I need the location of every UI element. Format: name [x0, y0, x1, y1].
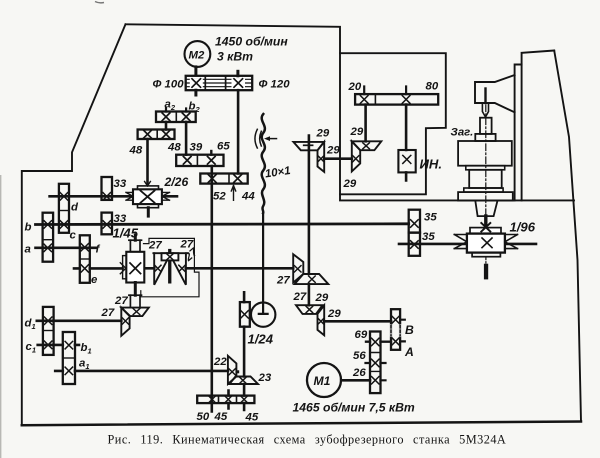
bevel 29 chain vertical shaft	[308, 136, 311, 306]
svg-text:29: 29	[350, 126, 364, 138]
shaft d1 horizontal	[37, 319, 122, 322]
worm 1/45 bottom prongs	[130, 295, 140, 307]
hob cutter	[482, 103, 488, 117]
hob slide arm	[475, 75, 515, 112]
x-mark 20	[360, 96, 368, 104]
x-mark d	[60, 193, 67, 201]
x-mark 1/45	[130, 263, 141, 274]
x-mark c	[60, 221, 67, 229]
shaft 1/24 vertical	[243, 292, 246, 410]
svg-text:27: 27	[276, 275, 290, 287]
hob spindle	[484, 89, 486, 104]
svg-text:29: 29	[316, 128, 330, 140]
svg-text:c: c	[70, 230, 77, 242]
svg-text:b: b	[25, 222, 32, 234]
bevel flag 27 horizontal	[121, 308, 149, 317]
svg-text:33: 33	[114, 213, 127, 225]
worm box 1/96 bottom flange	[472, 253, 500, 257]
x-mark 80	[402, 96, 410, 104]
gear pair 48 48	[138, 130, 175, 140]
shaft to gear B	[324, 320, 391, 323]
worm box 1/96 top plate	[470, 228, 501, 234]
svg-text:c1: c1	[26, 341, 37, 355]
svg-text:М2: М2	[189, 50, 205, 62]
svg-text:29: 29	[326, 145, 340, 157]
gear column 33/33 upper	[102, 177, 113, 200]
x-mark wheel	[167, 254, 173, 260]
svg-text:d: d	[71, 202, 79, 214]
pulley 120 upper stub	[236, 71, 239, 76]
svg-text:45: 45	[214, 411, 228, 423]
svg-text:a1: a1	[79, 358, 90, 372]
coupling right of 1/96	[505, 235, 518, 249]
shaft between 29 bevels	[324, 157, 352, 160]
x-mark right cone	[179, 265, 185, 271]
svg-text:e: e	[91, 274, 98, 286]
x-mark A	[392, 338, 400, 346]
svg-text:27: 27	[114, 295, 128, 307]
x-mark 45 right	[241, 396, 248, 403]
coupling left of 1/96	[454, 235, 467, 249]
x-mark ИН	[403, 155, 411, 163]
transfer wheel	[162, 253, 179, 260]
x-mark 33 upper	[103, 193, 111, 201]
svg-text:10×1: 10×1	[264, 165, 291, 180]
worm 2/26 top flange	[138, 186, 159, 189]
svg-text:26: 26	[352, 367, 366, 379]
coupling on e shaft	[120, 263, 126, 274]
svg-text:1/24: 1/24	[248, 332, 274, 347]
x-mark 2/26	[141, 191, 155, 203]
X mark table drive	[481, 223, 490, 232]
worm box 1/45	[126, 252, 144, 283]
x-mark pulley 120	[234, 79, 243, 87]
shaft e to feed box	[74, 267, 123, 270]
svg-text:1/45: 1/45	[113, 226, 139, 241]
table centerline dash-dot	[485, 92, 487, 216]
table drive thick center	[484, 216, 487, 227]
fixture wide box	[458, 141, 512, 166]
tick in top flag	[304, 144, 313, 146]
bevel flag 29 top vertical	[318, 142, 325, 172]
svg-text:27: 27	[148, 240, 162, 252]
x-mark c1	[44, 341, 52, 349]
svg-text:a2: a2	[165, 99, 176, 113]
x-mark a	[44, 244, 52, 252]
gear column 33/33 lower	[102, 213, 113, 235]
gear column f e	[80, 235, 90, 282]
worm box 1/96	[467, 234, 505, 253]
bevel flag 29 right vertical	[352, 141, 360, 171]
worm 1/45 bottom stub	[134, 283, 137, 296]
x-mark 29 lv	[318, 318, 324, 324]
bevel flag 29 mid horizontal	[295, 274, 329, 284]
x-mark b	[44, 221, 52, 229]
index box ИН	[398, 150, 415, 172]
stubs mid 45	[227, 391, 230, 409]
svg-text:29: 29	[343, 178, 357, 190]
gear pair 52 44	[200, 174, 247, 184]
motor M2 stem	[194, 67, 197, 76]
svg-text:В: В	[405, 323, 414, 337]
left cone	[154, 253, 167, 285]
shaft pulley120 down to gear44	[237, 90, 240, 173]
belt drive bar	[186, 76, 253, 90]
x-mark 35 lower	[411, 241, 419, 249]
column front plate	[515, 65, 522, 201]
x-mark 29 rv	[353, 156, 359, 162]
gear column 35/35	[409, 210, 420, 233]
svg-text:33: 33	[114, 178, 127, 190]
bevel flag 22 vertical	[228, 356, 237, 384]
table trapezoid	[475, 201, 497, 217]
screw line into circle	[259, 213, 268, 314]
x-mark a1	[65, 367, 73, 375]
svg-text:22: 22	[213, 356, 227, 368]
svg-text:1450 об/мин: 1450 об/мин	[215, 35, 288, 49]
gear pair a2 b2	[156, 112, 196, 123]
main vertical shaft 65-52-50	[211, 166, 214, 412]
svg-text:56: 56	[353, 350, 366, 362]
bevel flag 29 top horizontal	[293, 142, 324, 150]
fixture base	[458, 192, 513, 201]
x-mark 29 rh	[363, 143, 370, 149]
worm box 1/45 upper stub	[134, 235, 137, 240]
gear column b1 a1	[63, 332, 75, 384]
svg-text:29: 29	[327, 308, 341, 320]
svg-text:45: 45	[245, 412, 259, 424]
worm 2/26 bottom flange	[138, 204, 159, 208]
svg-text:3 кВт: 3 кВт	[217, 50, 253, 64]
fixture flange	[464, 188, 503, 192]
vertical feed screw 10x1 wavy	[262, 114, 265, 213]
bevel flag 29 low vertical	[318, 305, 325, 335]
x-mark 1/96	[482, 238, 492, 248]
bevel flag 23 horizontal	[230, 377, 259, 385]
svg-text:80: 80	[426, 81, 439, 93]
shaft 48 down to worm 2/26	[146, 139, 149, 184]
table screw thick bar	[484, 264, 488, 280]
table screw lower dash	[485, 257, 487, 263]
clamp arrow	[267, 138, 277, 140]
x-mark 50	[209, 396, 216, 403]
fixture step under workpiece	[475, 134, 495, 141]
x-mark bevel 27v	[122, 318, 128, 324]
svg-text:29: 29	[315, 292, 329, 304]
svg-text:69: 69	[355, 329, 368, 341]
gear bar 50 45 45	[197, 396, 254, 404]
x-mark d1	[44, 317, 52, 325]
stubs above a2 b2	[166, 108, 186, 112]
gear column d1 c1	[43, 307, 54, 355]
worm 2/26 bottom stub	[147, 208, 150, 216]
svg-text:50: 50	[197, 411, 210, 423]
shaft M1 to 26	[341, 379, 370, 382]
bevel flag 29 low horizontal	[296, 305, 323, 314]
bearing plate left of 1/45	[123, 256, 127, 279]
svg-text:Рис. 119. Кинематическая сх: Рис. 119. Кинематическая схема зубофрезе…	[108, 433, 507, 447]
top scan artifact	[95, 2, 104, 3]
svg-text:20: 20	[348, 81, 362, 93]
gear column b a	[43, 213, 54, 262]
shaft 20 up	[364, 105, 367, 142]
svg-text:b1: b1	[81, 342, 92, 356]
bevel flag 27 mid vertical	[293, 254, 303, 282]
shaft a1 long to bevel 22	[55, 370, 228, 373]
x-mark f	[81, 244, 89, 252]
pulley dividers	[205, 76, 225, 90]
shaft c1 b1	[38, 344, 79, 347]
motor M2 circle	[185, 41, 211, 67]
svg-text:1/96: 1/96	[510, 220, 536, 235]
x-mark 27 mid	[294, 266, 301, 272]
gear bar 20 80	[355, 94, 438, 105]
svg-text:48: 48	[167, 142, 181, 154]
svg-text:23: 23	[258, 372, 272, 384]
x-mark 33 lower	[103, 221, 111, 229]
svg-text:48: 48	[129, 145, 143, 157]
motor M1 circle	[307, 363, 341, 397]
nub right of 22	[236, 370, 239, 373]
svg-text:27: 27	[293, 291, 307, 303]
pulley 100 lower stub	[194, 90, 197, 95]
x-mark pulley 100	[192, 79, 201, 87]
worm 1/45 top prongs	[130, 240, 140, 252]
shaft 69 to A	[366, 341, 391, 343]
right cone	[173, 253, 186, 285]
shaft 80 down to index box	[405, 105, 408, 181]
svg-text:d1: d1	[25, 318, 36, 332]
gear column 69 56 26	[370, 332, 381, 394]
svg-text:Заг.: Заг.	[451, 127, 474, 139]
svg-text:Ф 100: Ф 100	[153, 79, 185, 91]
x-mark 26	[372, 377, 380, 385]
x-mark 69	[372, 338, 380, 346]
bevel flag 29 right horizontal	[352, 141, 382, 150]
gear block B A	[391, 309, 400, 350]
stubs 56 26	[366, 363, 386, 380]
worm 1/45 top cap	[129, 239, 142, 241]
arrowhead into 2/26	[145, 182, 151, 187]
coupling left 2/26	[126, 192, 133, 200]
gear pair 39 65	[176, 155, 223, 166]
svg-text:1465 об/мин 7,5 кВт: 1465 об/мин 7,5 кВт	[293, 401, 415, 415]
gear 1/24	[240, 302, 250, 327]
x-mark e	[81, 265, 89, 273]
svg-text:35: 35	[424, 212, 437, 224]
workpiece Заг.	[480, 118, 492, 134]
fixture cylinder	[469, 170, 502, 188]
bevel flag 27 vertical	[121, 308, 129, 336]
wheel spindle thick	[168, 260, 171, 283]
x-mark 35 upper	[411, 220, 419, 228]
svg-text:М1: М1	[314, 374, 331, 388]
stubs above bar 20 80	[364, 87, 406, 95]
shaft d to 33 to worm 2/26	[50, 195, 177, 198]
svg-text:44: 44	[241, 191, 255, 203]
arrow between 52 44	[231, 186, 235, 201]
x-mark 29 lh	[306, 306, 313, 312]
coupling right 2/26	[162, 192, 170, 200]
x-mark b1	[65, 341, 73, 349]
gear column d c	[59, 184, 69, 233]
feed shaft horizontal main	[144, 267, 293, 270]
svg-text:39: 39	[190, 142, 203, 154]
fixture step2	[466, 166, 505, 170]
left scan edge artifact	[0, 175, 2, 458]
long shaft b-33-35	[36, 222, 409, 225]
inner differential box outline	[340, 53, 446, 194]
svg-text:52: 52	[213, 191, 226, 203]
x-mark 1/24	[241, 311, 249, 319]
x-mark 56	[372, 359, 380, 367]
worm 1/45 bottom cap	[129, 294, 142, 296]
x-mark bevel 27h	[133, 309, 140, 315]
shaft a2 down	[165, 122, 168, 130]
svg-text:Ф 120: Ф 120	[259, 79, 291, 91]
worm box 2/26	[133, 189, 162, 204]
bottom outline rule	[22, 422, 581, 426]
x-mark left cone	[155, 265, 161, 271]
stub above 65	[210, 151, 212, 155]
feed housing thin frame	[141, 238, 199, 296]
x-mark 23	[240, 377, 247, 383]
shaft b2 down	[185, 122, 188, 155]
shaft a f	[36, 247, 97, 250]
x-mark 29 tv	[318, 156, 324, 162]
cone drive top edge	[153, 252, 187, 254]
column top edge	[522, 51, 555, 201]
x-mark B	[392, 316, 400, 324]
index dial circle	[251, 302, 275, 326]
belt stripes	[186, 79, 253, 86]
x-mark 45 mid	[225, 396, 232, 403]
stubs B A right	[400, 320, 405, 342]
svg-text:65: 65	[217, 141, 230, 153]
x-mark 29 mid	[309, 276, 316, 282]
shaft worm 1/96 horizontal	[399, 243, 536, 246]
x-mark 22	[229, 369, 236, 375]
svg-text:27: 27	[101, 307, 115, 319]
svg-text:2/26: 2/26	[164, 175, 189, 189]
wheel upper stub	[168, 249, 171, 253]
svg-text:f: f	[96, 244, 101, 256]
svg-text:ИН.: ИН.	[420, 157, 443, 172]
svg-text:35: 35	[422, 231, 435, 243]
clamp arcs	[255, 129, 261, 148]
svg-text:А: А	[404, 345, 414, 359]
svg-text:a: a	[25, 244, 31, 256]
pulley x windows	[190, 79, 203, 88]
svg-text:b2: b2	[189, 101, 201, 115]
